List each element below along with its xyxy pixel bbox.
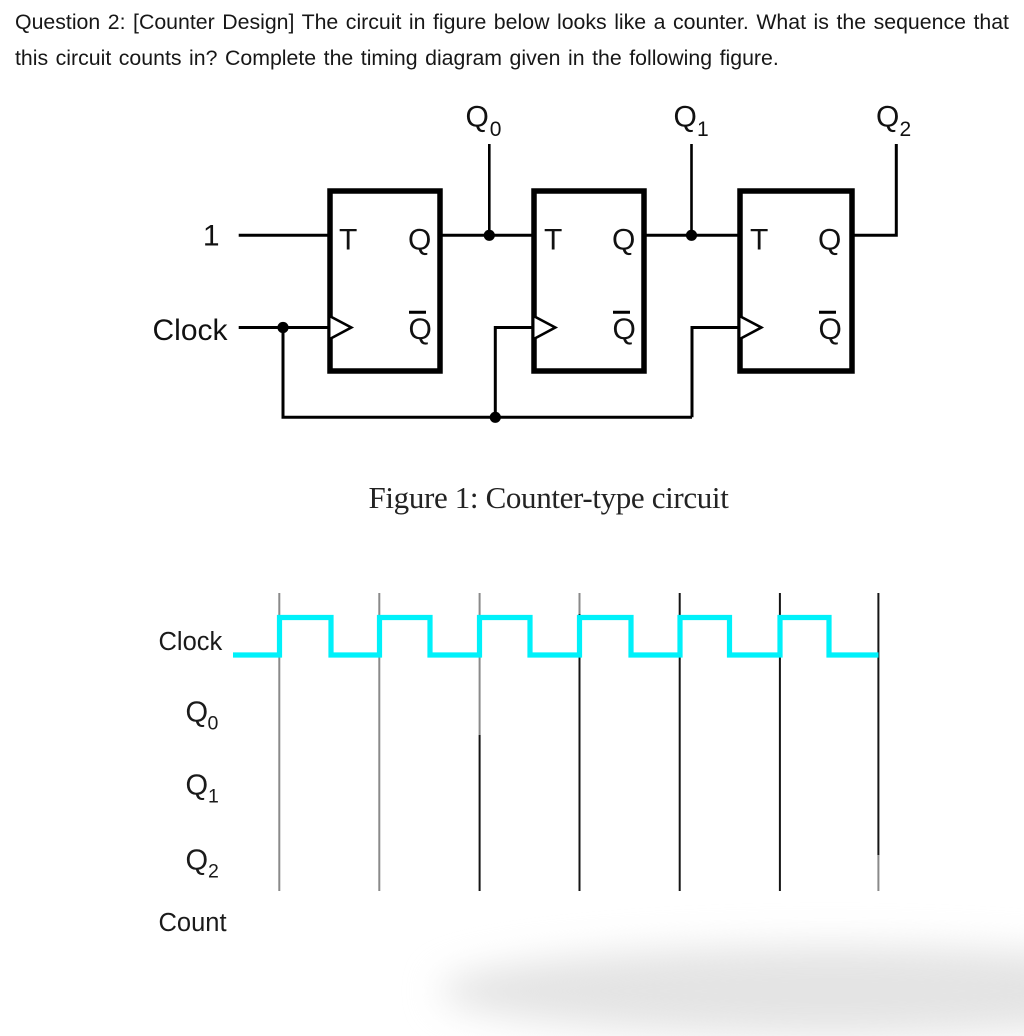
clock waveform <box>233 618 879 656</box>
node Q0 <box>484 230 495 241</box>
clock triangle (U1) <box>331 317 352 339</box>
wire Q0 riser <box>488 144 491 235</box>
gridline 6 <box>779 593 781 891</box>
gridline 7 <box>877 593 879 891</box>
svg-text:Q: Q <box>466 100 489 133</box>
wire U1.Q to U2.T <box>441 234 533 237</box>
node Q1 <box>686 230 697 241</box>
label Q0 (timing) <box>186 697 219 735</box>
label Q1 <box>674 100 709 141</box>
wire Q1 riser <box>690 144 693 235</box>
svg-text:T: T <box>750 224 768 257</box>
label Q0 <box>466 100 502 141</box>
svg-text:1: 1 <box>203 220 220 253</box>
svg-text:0: 0 <box>490 118 502 141</box>
gridline 1 <box>278 593 280 891</box>
svg-text:Q: Q <box>408 224 431 257</box>
figure caption <box>0 480 1024 516</box>
svg-text:Q: Q <box>818 224 841 257</box>
clock triangle (U2) <box>535 317 556 339</box>
svg-text:T: T <box>544 224 562 257</box>
flip-flop U2 <box>534 191 644 371</box>
svg-text:Q: Q <box>186 770 209 802</box>
svg-text:0: 0 <box>208 713 219 735</box>
wire clock riser to U3 clk <box>692 328 739 418</box>
wire clock drop <box>282 328 285 418</box>
timing diagram <box>0 560 1024 982</box>
wire U2.Q to U3.T <box>645 234 739 237</box>
flip-flop U3 <box>740 191 852 371</box>
svg-text:1: 1 <box>697 118 709 141</box>
wire clock bus <box>282 416 693 419</box>
wire 1 to U1.T <box>239 234 329 237</box>
svg-text:Q: Q <box>876 100 899 133</box>
svg-text:Count: Count <box>159 909 227 937</box>
svg-text:2: 2 <box>900 118 912 141</box>
label Q1 (timing) <box>186 770 219 808</box>
svg-text:Q: Q <box>613 313 636 346</box>
svg-text:1: 1 <box>208 786 219 808</box>
svg-text:Q: Q <box>186 845 209 877</box>
label Q2 <box>876 100 911 141</box>
clock triangle (U3) <box>741 317 762 339</box>
svg-text:Q: Q <box>409 313 432 346</box>
circuit schematic <box>0 0 1024 560</box>
flip-flop U1 <box>330 191 440 371</box>
gridline 5 <box>679 593 681 891</box>
question text <box>15 4 1024 77</box>
node clock bus junction <box>490 412 501 423</box>
gridline 4 <box>579 593 581 891</box>
svg-text:Clock: Clock <box>159 628 223 656</box>
wire U3.Q to Q2 riser <box>853 144 896 235</box>
svg-text:Q: Q <box>674 100 697 133</box>
node clock junction <box>277 322 288 333</box>
svg-text:Q: Q <box>819 313 842 346</box>
svg-text:2: 2 <box>208 861 219 883</box>
svg-text:Q: Q <box>612 224 635 257</box>
svg-text:T: T <box>339 224 357 257</box>
label Q2 (timing) <box>186 845 219 883</box>
gridline 3 <box>479 593 481 891</box>
wire Clock to U1 clk <box>239 326 329 329</box>
wire clock riser to U2 clk <box>495 328 533 418</box>
svg-text:Clock: Clock <box>153 314 229 347</box>
svg-text:Q: Q <box>186 697 209 729</box>
gridline 2 <box>378 593 380 891</box>
